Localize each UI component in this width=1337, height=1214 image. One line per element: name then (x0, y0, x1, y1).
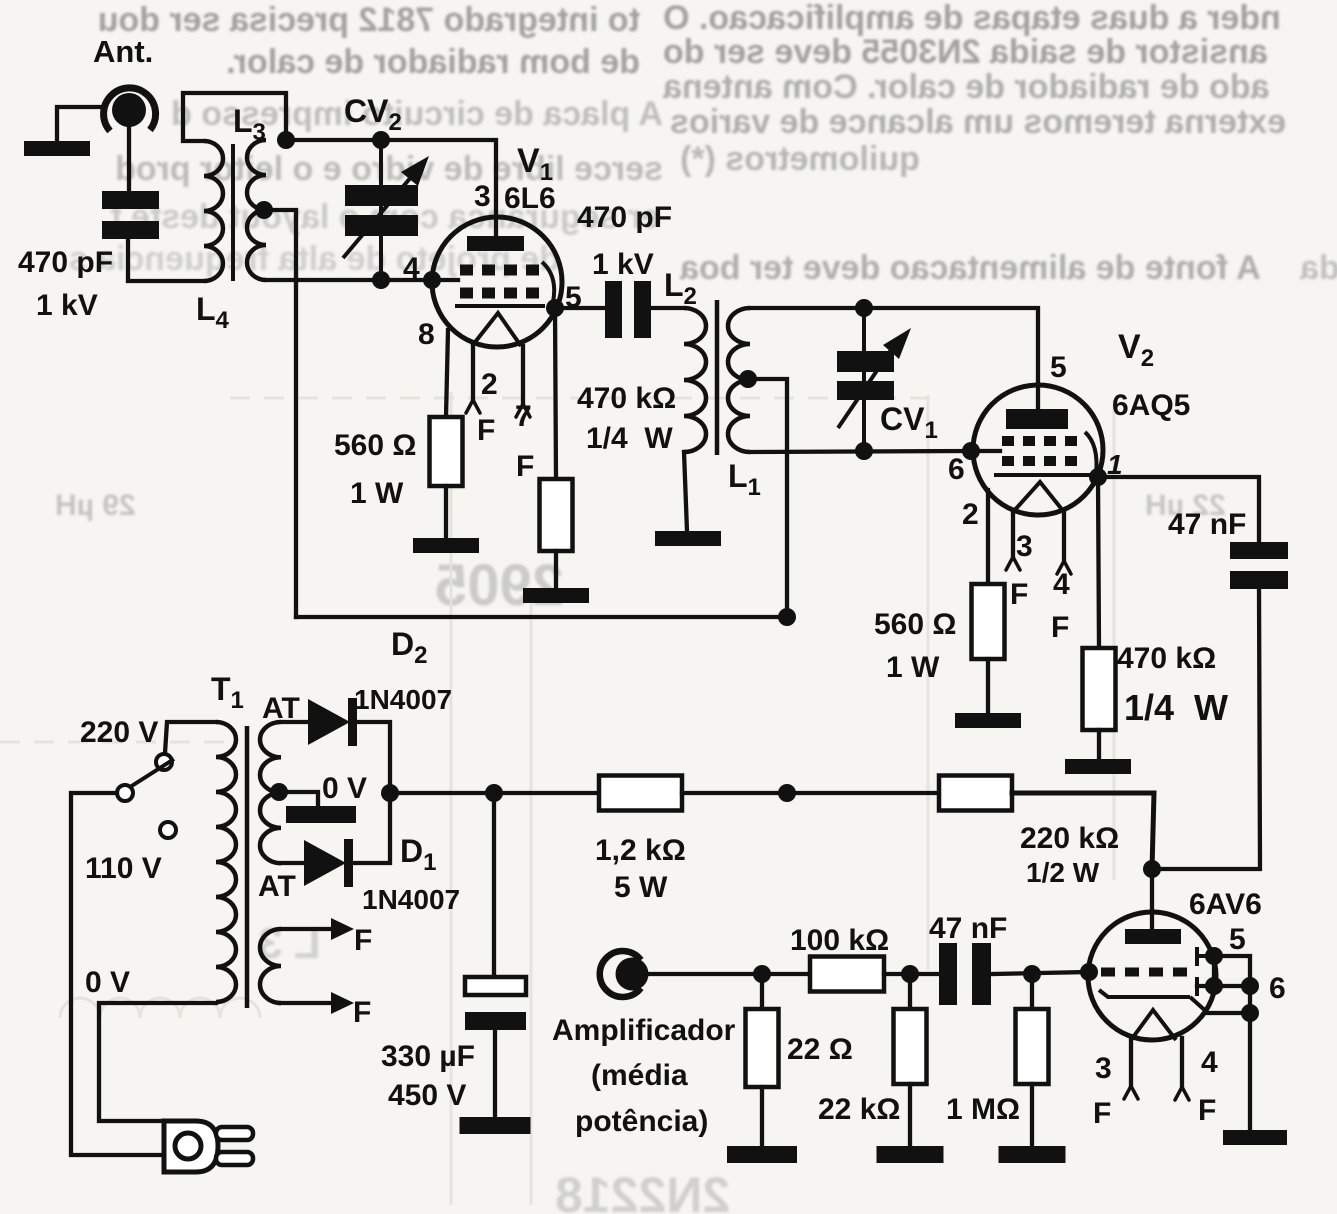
ground (V2 470k) (1065, 759, 1131, 774)
wire (pins 5-6 tie) (1214, 956, 1250, 986)
svg-text:2N2218: 2N2218 (555, 1167, 730, 1214)
svg-text:F: F (477, 414, 495, 447)
core L1/L2 (715, 300, 720, 455)
svg-text:de bom radiador de calor.: de bom radiador de calor. (226, 43, 640, 81)
svg-text:F: F (516, 450, 534, 483)
ground (1 Mohm) (999, 1146, 1066, 1163)
wire (493, 1030, 497, 1117)
wire (1152, 589, 1260, 869)
transformer T1 primary (211, 671, 244, 1002)
wire F (filament a) (281, 918, 372, 957)
variable capacitor CV2 (343, 93, 429, 280)
wire (1012, 793, 1154, 869)
svg-text:450 V: 450 V (388, 1079, 466, 1112)
wire (991, 972, 1089, 974)
svg-text:2905: 2905 (435, 553, 564, 618)
wire F (filament b) (281, 992, 371, 1029)
svg-text:1/4 W: 1/4 W (586, 422, 673, 455)
wire (L1 bottom to V2 grid) (750, 451, 970, 452)
svg-text:3: 3 (1095, 1052, 1112, 1085)
node HT center tap (270, 783, 318, 806)
ground (22 ohm) (727, 1146, 797, 1163)
wire (648, 972, 810, 976)
svg-text:1 W: 1 W (350, 477, 404, 510)
node pin 4 (V1 screen grid) (423, 271, 458, 289)
node 330uF junction (485, 784, 503, 802)
svg-text:F: F (354, 924, 372, 957)
wire (684, 452, 687, 531)
wire (1248, 986, 1252, 1130)
svg-text:6: 6 (948, 453, 965, 486)
tube V2 6AQ5 (948, 328, 1190, 644)
svg-text:1 W: 1 W (886, 651, 940, 684)
node CV1 top (855, 299, 873, 317)
svg-text:1/2 W: 1/2 W (1026, 857, 1100, 888)
resistor 470 kohm 1/4 W (V2) (1083, 642, 1229, 730)
wire (L3 tap to B+ feed) (255, 201, 296, 617)
svg-text:ansistor de saida 2N3055 deve: ansistor de saida 2N3055 deve ser do (663, 33, 1268, 71)
node pin 5 (V1 grid) (546, 299, 564, 317)
node cathode junction (1241, 1004, 1259, 1022)
coil L1 (728, 308, 761, 501)
svg-text:220 kΩ: 220 kΩ (1020, 822, 1119, 855)
wire pin 3 filament (1124, 1040, 1138, 1099)
transformer T1 filament secondary (260, 929, 281, 1003)
svg-text:serce libre de vidro e o leito: serce libre de vidro e o leitor prod (115, 150, 663, 188)
svg-text:0 V: 0 V (85, 966, 130, 999)
node CV2 top (372, 131, 390, 149)
svg-text:Ant.: Ant. (93, 34, 153, 69)
wire (57, 107, 104, 141)
variable capacitor CV1 (837, 308, 938, 451)
wire (986, 659, 990, 713)
core T1 (245, 726, 250, 1008)
svg-text:220 V: 220 V (80, 716, 158, 749)
wire (1098, 477, 1259, 542)
svg-text:AT: AT (262, 692, 300, 725)
capacitor 470 pF 1 kV (coupling) (565, 201, 672, 338)
svg-text:4: 4 (1053, 568, 1070, 601)
svg-text:29 µH: 29 µH (55, 489, 136, 522)
coil L4 (196, 141, 230, 334)
svg-text:4: 4 (1201, 1046, 1218, 1079)
resistor 220 kohm 1/2 W (939, 776, 1119, 889)
wire (760, 1087, 764, 1146)
wire pin 3 filament (1006, 512, 1020, 570)
wire (switch pole to plug) (71, 793, 164, 1155)
node pin 6 (V2 grid) (962, 442, 1000, 460)
svg-text:47 nF: 47 nF (1168, 508, 1246, 541)
coil L3 (233, 103, 266, 280)
resistor 22 kohm (818, 1009, 927, 1126)
coil L2 (664, 267, 706, 452)
svg-text:AT: AT (258, 870, 296, 903)
tube 6AV6 (1088, 888, 1286, 1130)
capacitor 470 pF 1 kV (antenna) (18, 191, 159, 322)
node 6AV6 anode junction (1143, 860, 1161, 878)
wire pin 6 (1197, 984, 1250, 988)
svg-text:2: 2 (962, 498, 979, 531)
svg-text:5: 5 (1050, 351, 1067, 384)
node L3 top (277, 131, 295, 149)
wire (444, 486, 448, 538)
resistor 470 kohm 1/4 W (V1 grid leak) (540, 382, 677, 551)
node B+ feed junction (778, 784, 796, 802)
capacitor 330 uF 450 V (381, 977, 526, 1112)
svg-text:5: 5 (565, 281, 582, 314)
svg-text:da: da (1299, 249, 1337, 287)
capacitor 47 nF (V2 cathode) (1168, 508, 1288, 589)
wire (682, 791, 939, 795)
wire (357, 722, 390, 793)
svg-text:nder a duas etapas de amplific: nder a duas etapas de amplificacao. O (663, 0, 1281, 37)
node pin 5 (1205, 947, 1223, 965)
tube V1 6L6 (403, 142, 562, 483)
bleed-through mirrored text (reverse page) (69, 0, 1337, 287)
wire (127, 126, 131, 191)
wire pin 7 filament (516, 346, 530, 417)
svg-text:22 kΩ: 22 kΩ (818, 1093, 900, 1126)
wire (1097, 730, 1101, 759)
node rectifier output (381, 784, 399, 802)
wire (220V tap) (165, 722, 216, 753)
svg-text:1 kV: 1 kV (36, 289, 98, 322)
ground (22 kohm) (877, 1146, 944, 1163)
wire (554, 551, 558, 588)
svg-text:Amplificador: Amplificador (552, 1014, 736, 1047)
wire B+ rail (390, 791, 599, 795)
svg-text:1,2 kΩ: 1,2 kΩ (595, 834, 686, 867)
svg-text:470 kΩ: 470 kΩ (1117, 642, 1216, 675)
node pin 1 (V2 cathode) (1089, 468, 1107, 486)
svg-text:560 Ω: 560 Ω (874, 608, 956, 641)
svg-text:1/4 W: 1/4 W (1124, 687, 1228, 728)
svg-text:22 Ω: 22 Ω (787, 1033, 853, 1066)
svg-text:externa teremos um alcance de: externa teremos um alcance de varios (670, 103, 1286, 141)
node 22 kohm junction (901, 965, 919, 1009)
wire (128, 239, 204, 281)
node L1 tap (739, 370, 787, 617)
svg-text:47 nF: 47 nF (929, 912, 1007, 945)
wire pin 2 (986, 490, 990, 584)
svg-text:5: 5 (1229, 923, 1246, 956)
svg-text:F: F (1051, 611, 1069, 644)
svg-text:F: F (1198, 1094, 1216, 1127)
wire (D2 line) (296, 615, 787, 619)
wire (353, 793, 390, 863)
switch (220/110) (80, 716, 176, 999)
svg-text:470 kΩ: 470 kΩ (577, 382, 676, 415)
svg-text:100 kΩ: 100 kΩ (790, 924, 889, 957)
node 1 Mohm junction (1023, 965, 1041, 1009)
svg-text:(média: (média (591, 1059, 688, 1092)
ground (V1 cathode) (413, 538, 479, 553)
svg-text:F: F (1010, 578, 1028, 611)
wire (1150, 869, 1154, 929)
wire pin 2 filament (466, 347, 480, 413)
svg-text:A fonte de alimentacao deve te: A fonte de alimentacao deve ter boa (679, 249, 1261, 287)
node 6AV6 grid (1080, 963, 1098, 981)
node D2 line junction (778, 608, 796, 626)
svg-text:3: 3 (1016, 530, 1033, 563)
wire (281, 861, 304, 865)
node 22 ohm junction (753, 965, 771, 1009)
svg-text:470 pF: 470 pF (577, 201, 672, 234)
wire (primary bottom / 0V to plug) (99, 1003, 216, 1121)
wire (1098, 477, 1099, 648)
antenna jack Ant. (93, 34, 156, 131)
svg-text:1 kV: 1 kV (592, 248, 654, 281)
wire (cathode out) (1208, 1011, 1250, 1015)
wire (492, 793, 496, 977)
svg-text:0 V: 0 V (322, 772, 367, 805)
wire (555, 306, 605, 310)
resistor 22 ohm (746, 1009, 853, 1087)
svg-text:1N4007: 1N4007 (362, 884, 460, 915)
svg-text:6L6: 6L6 (504, 182, 556, 215)
svg-text:F: F (353, 996, 371, 1029)
svg-text:potência): potência) (575, 1105, 708, 1138)
wire (1030, 1084, 1034, 1146)
node pin 6 ties (1205, 977, 1259, 995)
svg-text:2: 2 (481, 368, 498, 401)
ground (V1 grid leak) (523, 588, 589, 603)
wire (908, 1084, 912, 1146)
wire (L1 top to V2 plate rail) (750, 308, 1038, 411)
svg-text:1N4007: 1N4007 (354, 684, 452, 715)
top rail wire (286, 140, 496, 236)
ground (0 V center tap) (286, 772, 367, 823)
ground (330uF) (460, 1117, 531, 1134)
svg-text:330 µF: 330 µF (381, 1040, 475, 1073)
faint bleed-through schematic marks (0, 392, 1226, 1214)
wire (651, 306, 684, 310)
ground (6AV6) (1223, 1130, 1287, 1145)
capacitor 47 nF (coupling to 6AV6) (929, 912, 1007, 1005)
wire (183, 93, 286, 141)
resistor 560 ohm 1 W (V2 cathode) (874, 584, 1005, 684)
wire (L3 bottom to V1 grid row) (266, 278, 432, 282)
node CV1 bottom (855, 442, 873, 460)
svg-text:6: 6 (1269, 972, 1286, 1005)
audio jack Amplificador (552, 951, 736, 1138)
node CV2 bottom (372, 271, 390, 289)
mains plug (164, 1121, 253, 1172)
svg-text:1 MΩ: 1 MΩ (946, 1093, 1020, 1126)
resistor 100 kohm (790, 924, 889, 992)
resistor 1,2 kohm 5 W (595, 776, 686, 905)
svg-text:560 Ω: 560 Ω (334, 429, 416, 462)
svg-text:quilometros (*): quilometros (*) (680, 140, 920, 178)
svg-text:4: 4 (403, 252, 420, 285)
core L3/L4 (231, 144, 235, 281)
svg-text:F: F (1093, 1097, 1111, 1130)
svg-text:6AQ5: 6AQ5 (1112, 389, 1190, 422)
wire (281, 720, 308, 724)
svg-text:ado de radiador de calor. Com: ado de radiador de calor. Com antena (662, 68, 1270, 106)
diode D1 1N4007 (258, 833, 460, 915)
transformer T1 HT secondary (260, 722, 281, 863)
resistor 1 Mohm (946, 1009, 1049, 1126)
svg-text:8: 8 (418, 318, 435, 351)
svg-text:3: 3 (474, 180, 491, 213)
ground (antenna) (24, 141, 90, 156)
wire (grid leak) (555, 308, 556, 479)
ground (V2 560 ohm) (955, 713, 1021, 728)
wire pin 8 cathode (446, 330, 448, 417)
svg-text:470 pF: 470 pF (18, 246, 113, 279)
svg-text:110 V: 110 V (85, 852, 162, 885)
svg-text:6AV6: 6AV6 (1189, 888, 1262, 921)
wire pin 4 filament (1057, 512, 1071, 574)
wire (884, 972, 939, 976)
wire pin 4 filament (1175, 1038, 1189, 1100)
svg-text:to integrado 7812 precisa ser: to integrado 7812 precisa ser dou (98, 1, 640, 39)
svg-text:5 W: 5 W (614, 871, 668, 904)
diode D2 1N4007 (262, 626, 452, 746)
ground (L2) (655, 531, 721, 546)
resistor 560 ohm 1 W (V1 cathode) (334, 417, 463, 510)
